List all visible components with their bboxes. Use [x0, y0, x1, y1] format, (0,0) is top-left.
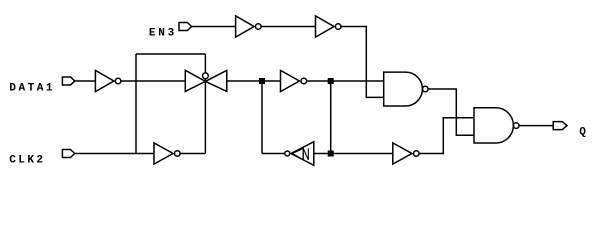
svg-text:CLK2: CLK2: [9, 154, 43, 166]
transmission gate U4: [185, 70, 227, 91]
inverter U1: [236, 16, 261, 37]
svg-text:EN3: EN3: [149, 28, 175, 40]
inverter U6: [154, 143, 180, 164]
NAND U10: [474, 108, 519, 143]
wire U3 to transmission gate: [121, 80, 185, 82]
inverter U2: [316, 16, 342, 37]
wire U9 input from node Y: [314, 153, 393, 155]
inverter U5: [281, 70, 307, 91]
wire U7 output to U10 input B: [428, 89, 474, 135]
inverter U8: [393, 143, 419, 164]
wire clock feed top horizontal: [136, 53, 205, 55]
wire EN3 to U1: [192, 26, 236, 28]
wire DATA1 to U3: [75, 80, 96, 82]
svg-text:DATA1: DATA1: [9, 83, 53, 95]
wire U6 to TG bottom: [180, 153, 205, 155]
wire U10 to port Q: [519, 125, 553, 127]
wire U8 to NAND U10 input A: [419, 118, 474, 154]
port DATA1: [62, 77, 74, 85]
wire TG output to node X: [227, 80, 281, 82]
port EN3: [179, 23, 192, 31]
wire feedback out to node X: [262, 153, 285, 155]
port CLK2: [62, 150, 74, 158]
wire TG down to inverted clock: [204, 81, 206, 153]
wire clock feed into TG bubble: [204, 54, 206, 73]
wire U2 to NAND U7 input B: [341, 27, 384, 98]
wire node Y down: [330, 81, 332, 154]
junction node Y bottom: [328, 151, 334, 157]
weak feedback inverter U9: [285, 142, 314, 166]
junction node X: [259, 78, 265, 84]
NAND U7: [384, 72, 428, 106]
inverter U3: [95, 70, 120, 91]
svg-text:Q: Q: [579, 127, 586, 139]
wire node X down to feedback: [261, 81, 263, 154]
wire U5 to NAND U7 input A: [307, 80, 384, 82]
wire CLK2 to U6: [75, 153, 154, 155]
port Q: [553, 122, 567, 130]
wire U1 to U2: [261, 26, 315, 28]
wire clock feed left vertical: [135, 54, 137, 154]
junction node Y: [328, 78, 334, 84]
